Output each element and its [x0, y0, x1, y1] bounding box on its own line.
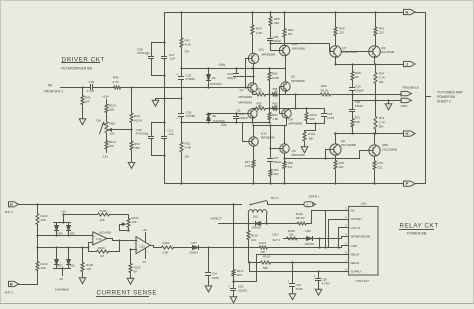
svg-text:+: + [176, 73, 178, 77]
wire R46 to Q1 base [122, 87, 248, 89]
capacitor C40 [352, 101, 354, 109]
svg-text:Q1: Q1 [240, 88, 244, 92]
wire R60 to Q4 [279, 108, 287, 110]
wire R126 to D67 [175, 247, 193, 249]
svg-text:2W: 2W [379, 80, 384, 84]
transistor Q2 [281, 82, 290, 91]
svg-text:10K: 10K [260, 250, 265, 254]
wire Q8 collector [335, 134, 337, 144]
wire Q11 base to input line [246, 58, 249, 60]
wire below C28 loop [151, 59, 153, 76]
svg-text:ZE: ZE [212, 76, 216, 80]
svg-text:1N4752A: 1N4752A [210, 82, 222, 86]
wire node column x164 [164, 13, 166, 56]
svg-text:RELAY CKT: RELAY CKT [400, 222, 439, 229]
svg-text:D61: D61 [253, 214, 258, 218]
svg-text:511: 511 [288, 32, 293, 36]
transistor Q6 [280, 144, 289, 153]
svg-text:R119: R119 [263, 255, 270, 259]
wire Q9 base to Q7 [342, 51, 369, 53]
resistor R126 [161, 246, 175, 249]
svg-text:DELAY: DELAY [351, 261, 360, 265]
zener diode D59 1N4752A [208, 114, 210, 115]
svg-text:UPC1237: UPC1237 [356, 279, 370, 283]
svg-text:-15v: -15v [102, 155, 108, 159]
svg-text:2W: 2W [185, 49, 190, 53]
wire R54 to Q11 [252, 36, 254, 53]
svg-text:1N4002: 1N4002 [252, 226, 262, 230]
resistor R114 [106, 135, 108, 140]
IC pin 1 D/L [345, 210, 349, 212]
wire R65 to Q7 [335, 37, 337, 46]
svg-text:499: 499 [41, 266, 46, 270]
capacitor C27 [162, 56, 167, 58]
capacitor C35 [236, 114, 238, 116]
svg-text:MPSW56: MPSW56 [292, 47, 305, 51]
svg-text:1N4002: 1N4002 [305, 242, 315, 246]
wire C36 to Q10 base node [270, 41, 272, 51]
svg-text:360: 360 [274, 172, 279, 176]
svg-text:1M: 1M [85, 100, 90, 104]
diode D64 [56, 223, 58, 226]
wire stub to C30 [152, 122, 165, 124]
wire supply line pin8 [250, 271, 349, 273]
ground below C54 [208, 276, 210, 284]
wire tee to Q7 base [271, 43, 330, 45]
wire input [61, 87, 90, 89]
svg-text:10K: 10K [100, 218, 105, 222]
wire R120 to pin1 [308, 223, 312, 225]
svg-text:+15: +15 [61, 209, 66, 213]
svg-text:470/100x: 470/100x [135, 132, 148, 136]
transistor Q8 [330, 144, 341, 155]
capacitor C54 [208, 248, 210, 272]
capacitor C52 [231, 288, 236, 290]
resistor R129 [305, 107, 307, 109]
svg-text:2W: 2W [185, 154, 190, 158]
svg-text:2.2uF: 2.2uF [86, 89, 96, 93]
resistor R63 [268, 112, 271, 121]
transistor Q3 [248, 109, 257, 118]
wire R50 to ground [131, 152, 133, 161]
wire R67 to bottom rail [253, 169, 255, 184]
wire output base line [285, 158, 360, 160]
trimmer wiper loop [120, 230, 129, 232]
wire bridge bottom [54, 268, 71, 270]
svg-text:OFFSET: OFFSET [351, 217, 363, 221]
capacitor C34 [236, 69, 238, 73]
wire R122 to plus line [37, 226, 39, 236]
svg-text:511: 511 [288, 165, 293, 169]
relay RLY1 contact arm [251, 201, 267, 205]
svg-text:MPS8099: MPS8099 [239, 95, 253, 99]
svg-text:470/50: 470/50 [186, 114, 196, 118]
wire +supply top rail [165, 12, 404, 14]
wire R116 column to delay line [248, 241, 250, 263]
svg-text:Q10: Q10 [292, 42, 298, 46]
svg-text:R120: R120 [296, 212, 303, 216]
wire Q12 emitter [253, 147, 255, 160]
wire R70 to bottom rail [335, 171, 337, 184]
svg-text:10K: 10K [251, 238, 256, 242]
wire bus note tick [426, 96, 431, 98]
svg-text:ZE: ZE [212, 114, 216, 118]
resistor R65 [335, 13, 337, 27]
wire R49 to junction [131, 124, 133, 141]
wire R58 to Q2 [279, 94, 286, 96]
wire right bus vertical [425, 13, 427, 184]
wire R130 to output [110, 251, 120, 253]
wire stub to C28 [152, 42, 165, 44]
wire R61 to bottom rail [270, 178, 272, 184]
wire R74 to feedback gnd line [375, 85, 377, 101]
svg-text:4.3K: 4.3K [185, 145, 192, 149]
resistor R132 [82, 248, 84, 262]
wire below C27 [164, 59, 166, 99]
svg-text:Q4: Q4 [289, 117, 293, 121]
resistor R50 [130, 140, 133, 151]
svg-text:RLY1: RLY1 [271, 196, 279, 200]
svg-text:-15: -15 [142, 260, 147, 264]
diode D62 [307, 237, 313, 241]
capacitor C29 [90, 85, 92, 90]
sheet connector tag B left [9, 281, 19, 286]
transistor Q11 [248, 53, 258, 63]
svg-text:+: + [287, 280, 289, 284]
svg-text:GND: GND [401, 104, 409, 108]
svg-text:2: 2 [307, 203, 309, 207]
svg-text:WFMR SENSE: WFMR SENSE [351, 235, 371, 239]
diode D66 [68, 248, 70, 260]
wire R66 to feedback tag A [332, 94, 402, 96]
svg-text:+: + [313, 275, 315, 279]
svg-text:SHT 3: SHT 3 [5, 290, 14, 294]
wire from tag N to bus [416, 12, 426, 14]
resistor R75 [374, 157, 376, 161]
svg-text:MPS8599: MPS8599 [239, 101, 253, 105]
ground below C52 [233, 291, 235, 295]
svg-text:MPS8099: MPS8099 [291, 79, 305, 83]
svg-text:470/50: 470/50 [186, 77, 196, 81]
svg-text:69: 69 [355, 75, 359, 79]
wire C39 to feedback line [352, 91, 354, 95]
svg-text:MPSW06: MPSW06 [292, 153, 305, 157]
svg-text:33.2K: 33.2K [134, 118, 143, 122]
wire -34v rail [182, 122, 271, 124]
svg-text:20K: 20K [109, 108, 115, 112]
resistor R119 [260, 261, 272, 264]
wire spreader to Q12 [253, 126, 255, 137]
wire row2 to compensation box [287, 108, 325, 110]
capacitor C55 [324, 109, 326, 113]
svg-text:20/50: 20/50 [296, 287, 304, 291]
svg-text:Q11: Q11 [259, 47, 265, 51]
feedback tag B GND [401, 98, 412, 102]
wire op-amp2 output [151, 245, 154, 247]
svg-text:2SC3298B: 2SC3298B [341, 143, 356, 147]
wire Q4 collector to spreader [286, 118, 288, 126]
svg-text:Q12: Q12 [261, 131, 267, 135]
capacitor C33 [179, 113, 184, 115]
svg-text:N: N [406, 10, 409, 15]
wire ground line [156, 98, 182, 100]
svg-text:470/100x: 470/100x [137, 51, 150, 55]
wire pin1 branch column [325, 211, 327, 248]
svg-text:+VRECT: +VRECT [210, 216, 222, 220]
wire R63 to -34v [269, 121, 271, 123]
IC pin 8 SUPPLY [345, 271, 349, 273]
wire R117 to C52 [233, 278, 235, 288]
capacitor C50 [318, 272, 320, 278]
svg-text:2.2K: 2.2K [256, 31, 263, 35]
wire base line to Q8 [325, 150, 327, 159]
op-amp U12a MC1458 [93, 232, 107, 245]
diode D61 [255, 222, 261, 226]
svg-text:2SA1306B: 2SA1306B [379, 50, 394, 54]
relay fixed contact [267, 202, 269, 205]
trimmer R124 [128, 215, 130, 218]
svg-text:6.8K: 6.8K [163, 251, 169, 255]
svg-text:220pF: 220pF [227, 76, 236, 80]
svg-text:FEEDBACK: FEEDBACK [403, 86, 421, 90]
svg-text:330pF: 330pF [355, 89, 364, 93]
resistor R113 [106, 100, 108, 104]
wire below C31 to bottom rail [164, 139, 166, 184]
svg-text:MPS8599: MPS8599 [261, 136, 275, 140]
resistor R130 feedback [88, 248, 90, 252]
wire Q3 base line [209, 113, 248, 115]
svg-text:+34v: +34v [218, 63, 226, 67]
wire Q2 collector to Q10 [285, 56, 287, 82]
svg-text:C29: C29 [89, 80, 95, 84]
ground below C49 [292, 287, 294, 292]
svg-text:.1uF: .1uF [167, 132, 174, 136]
wire pin6 relay loop [257, 254, 349, 256]
wire R69 to bottom rail [284, 170, 286, 184]
zener diode D58 1N4752A [208, 69, 210, 75]
resistor R131 [303, 131, 306, 142]
svg-text:D67: D67 [192, 241, 198, 245]
svg-text:CURRENT SENSE: CURRENT SENSE [97, 289, 158, 296]
svg-text:4.7K: 4.7K [112, 80, 119, 84]
resistor R122 [37, 205, 39, 213]
wire Q10 emitter to R64 [284, 39, 286, 46]
svg-text:75R: 75R [134, 146, 140, 150]
svg-text:10K: 10K [109, 132, 115, 136]
svg-text:D64: D64 [58, 231, 63, 235]
svg-text:R125: R125 [100, 209, 107, 213]
svg-text:D65: D65 [70, 231, 75, 235]
svg-text:FILTER/DRIVER BB: FILTER/DRIVER BB [61, 66, 92, 70]
svg-text:4.7/50: 4.7/50 [322, 282, 330, 286]
svg-text:2.2K: 2.2K [245, 164, 251, 168]
svg-text:U12: U12 [96, 237, 102, 241]
svg-text:220pF: 220pF [239, 116, 248, 120]
wire pin3 column [339, 227, 349, 229]
wire box to R131 [315, 124, 317, 131]
IC pin 4 WFMR SENSE [345, 236, 349, 238]
wire R72 to H line [375, 131, 377, 134]
pot CW arrow [100, 123, 104, 134]
resistor R62 [269, 69, 271, 72]
capacitor C39 [352, 82, 354, 87]
wire R71 to H line [352, 129, 354, 134]
wire compensation box bottom [306, 122, 308, 124]
svg-text:499: 499 [41, 218, 46, 222]
svg-text:SUPPLY: SUPPLY [351, 270, 362, 274]
wire node column x164 lower [164, 99, 166, 136]
resistor R47 [181, 13, 183, 38]
wire Q4 base stub [280, 113, 283, 115]
resistor R58 [267, 94, 272, 96]
wire R53 to bottom rail [181, 154, 183, 184]
svg-text:J: J [406, 62, 408, 67]
svg-text:4.3K: 4.3K [185, 43, 192, 47]
svg-text:+: + [228, 285, 230, 289]
svg-text:-: - [137, 240, 138, 243]
wire +34v rail [182, 68, 285, 70]
svg-text:330pF: 330pF [355, 104, 364, 108]
sheet connector tag J [404, 61, 416, 66]
capacitor C28 [151, 43, 153, 56]
ground below R131 [304, 143, 306, 145]
svg-text:R56: R56 [109, 122, 115, 126]
wire spreader to Q6 collector [284, 126, 286, 144]
svg-text:B: B [10, 282, 13, 287]
wire +15 node [63, 215, 65, 223]
capacitor C37 [268, 158, 273, 160]
sheet connector tag H right [404, 131, 416, 136]
ground below R132 [82, 273, 84, 276]
svg-text:-: - [94, 242, 95, 245]
resistor R118 [286, 237, 299, 240]
resistor R71 [352, 112, 354, 118]
resistor R70 [335, 156, 337, 160]
svg-text:R126: R126 [163, 241, 170, 245]
svg-text:390 1W: 390 1W [296, 216, 305, 220]
resistor R117 [232, 269, 235, 277]
svg-text:68: 68 [134, 270, 138, 274]
wire speaker line [19, 204, 242, 206]
svg-text:56K: 56K [263, 266, 268, 270]
trimmer wiper arrow [120, 224, 125, 226]
resistor R59 [253, 108, 255, 110]
wire R119 to pin7 [272, 262, 349, 264]
svg-text:15K: 15K [289, 233, 294, 237]
wire R45 to ground [82, 106, 84, 117]
wire R55 down [270, 27, 272, 38]
svg-text:330pF: 330pF [273, 39, 281, 43]
svg-text:TO POWER AMP: TO POWER AMP [437, 91, 464, 95]
resistor R125 [64, 214, 97, 216]
svg-text:SHEET 3: SHEET 3 [437, 99, 451, 103]
resistor R120 [296, 222, 307, 225]
wire C33 down [181, 117, 183, 142]
svg-text:10/63: 10/63 [327, 116, 335, 120]
resistor R45 [82, 88, 84, 95]
op-amp U12b [136, 237, 150, 254]
svg-text:1N914B(4): 1N914B(4) [55, 287, 69, 291]
relay coil legs [248, 216, 250, 224]
svg-text:2SA1306B: 2SA1306B [342, 50, 357, 54]
IC pin 6 RELAY [345, 254, 349, 256]
wire C32 to C33 [181, 80, 183, 113]
resistor R57 [253, 94, 255, 96]
svg-text:D/L: D/L [351, 209, 356, 213]
transistor Q7 [330, 46, 342, 58]
capacitor C36 [268, 38, 273, 40]
wire Q08 collector [374, 134, 376, 145]
wire Q6 base [271, 148, 280, 150]
wire below C30 loop [151, 139, 153, 156]
svg-text:CW: CW [96, 118, 101, 122]
svg-text:POWER BB: POWER BB [407, 231, 427, 235]
svg-text:SHT 3: SHT 3 [272, 238, 280, 242]
svg-text:150: 150 [258, 89, 263, 93]
capacitor C31 [162, 136, 167, 138]
svg-text:MPS8599: MPS8599 [289, 122, 303, 126]
wire R75 to bottom rail [374, 171, 376, 184]
wire Q7 collector [335, 57, 337, 65]
wire D67 to IC [199, 247, 259, 249]
wire D61 to R120 [267, 223, 297, 225]
ground below R124 [130, 274, 132, 277]
resistor R64 [284, 13, 286, 28]
wire R122 node down [37, 236, 39, 248]
svg-text:L38.7: L38.7 [272, 232, 279, 236]
wire plus input [131, 249, 137, 251]
svg-text:SPKR +: SPKR + [309, 195, 320, 199]
resistor R73 [375, 13, 377, 27]
svg-text:R121: R121 [259, 241, 266, 245]
wire into pin5 [341, 246, 343, 248]
svg-text:221: 221 [339, 31, 344, 35]
svg-text:P: P [406, 181, 409, 186]
wire contact to SPKR tag [268, 204, 304, 206]
svg-text:113R: 113R [272, 76, 279, 80]
transistor Q9 [369, 46, 381, 58]
svg-text:U12: U12 [140, 244, 146, 248]
ground below C50 [318, 281, 320, 288]
svg-text:Q3: Q3 [237, 108, 241, 112]
svg-text:221: 221 [339, 165, 344, 169]
wire Q1 emitter [252, 92, 254, 95]
wire R113 to pot [106, 114, 108, 121]
ground below R45 [82, 117, 84, 119]
svg-text:100/16: 100/16 [238, 289, 247, 293]
wire Q12 base stub [243, 141, 249, 143]
relay RLY1 coil [248, 210, 266, 216]
svg-text:POWER BB: POWER BB [437, 95, 456, 99]
svg-text:+15: +15 [142, 228, 147, 232]
wire speaker zobel column [233, 205, 235, 269]
svg-text:2SC3298B: 2SC3298B [382, 148, 397, 152]
wire output to tag H [335, 133, 404, 135]
svg-text:1M: 1M [100, 254, 105, 258]
svg-text:1.5K: 1.5K [272, 117, 278, 121]
svg-text:1N914: 1N914 [190, 251, 199, 255]
wire diff stage rows tie [294, 93, 296, 95]
svg-text:H: H [406, 131, 409, 136]
wire -15 stub [61, 267, 63, 269]
wire R125 to trimmer [111, 214, 129, 216]
wire base line to Q08 [359, 151, 361, 159]
wire Q6 emitter node [284, 154, 286, 159]
svg-text:-34v: -34v [220, 123, 227, 127]
wire supply tap [248, 261, 250, 263]
wire Q11 collector through rail to Q1 [253, 64, 255, 83]
transistor Q12 [249, 137, 258, 146]
